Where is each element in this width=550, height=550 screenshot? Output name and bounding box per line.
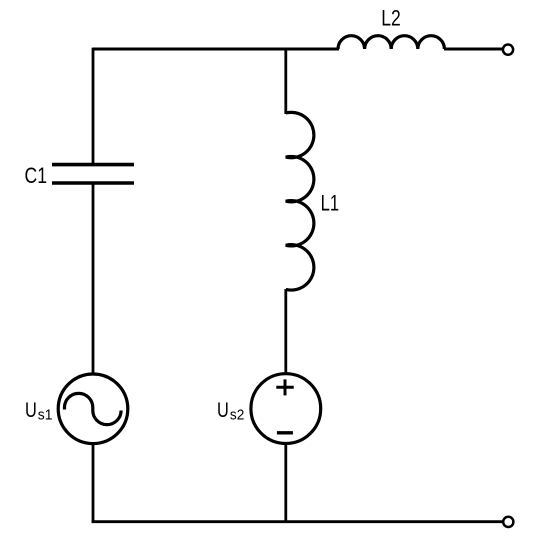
- wire left vertical upper: [92, 48, 95, 163]
- source U_s1 sine wave: [65, 393, 122, 424]
- wire top-right horizontal: [444, 48, 503, 51]
- terminal bottom-right: [503, 517, 513, 527]
- wire left vertical middle: [92, 183, 95, 375]
- wire middle vertical mid: [284, 289, 287, 375]
- svg-text:L1: L1: [321, 190, 340, 215]
- source U_s2 minus sign: [277, 431, 293, 434]
- source U_s2 circle: [251, 374, 321, 444]
- svg-text:C1: C1: [25, 163, 48, 188]
- wire top-left horizontal: [93, 48, 339, 51]
- source U_s1 circle: [58, 374, 128, 444]
- terminal top-right: [503, 45, 513, 55]
- svg-text:U: U: [217, 399, 229, 422]
- svg-text:L2: L2: [381, 6, 401, 31]
- wire middle vertical lower: [284, 443, 287, 523]
- wire middle vertical upper: [284, 48, 287, 114]
- capacitor C1: [52, 165, 134, 183]
- svg-text:U: U: [25, 399, 37, 422]
- inductor L2: [338, 36, 444, 49]
- svg-text:s2: s2: [230, 408, 244, 424]
- inductor L1: [286, 112, 314, 290]
- svg-text:s1: s1: [38, 408, 53, 424]
- label U_s1: [25, 399, 53, 424]
- wire left vertical lower: [92, 443, 95, 523]
- wire bottom horizontal: [92, 520, 503, 523]
- source U_s2 plus sign: [276, 379, 293, 395]
- label U_s2: [217, 399, 244, 424]
